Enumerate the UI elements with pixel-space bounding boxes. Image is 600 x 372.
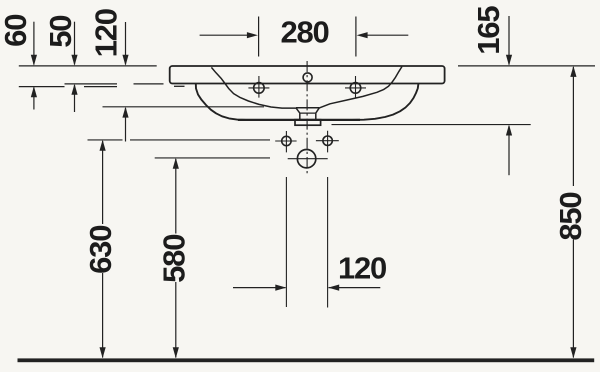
basin deck rectangle (170, 66, 445, 84)
arrowhead 60 down (31, 55, 37, 66)
dimension 165 lower tail (508, 126, 510, 175)
wire 50-level dash segment 1 (65, 83, 118, 85)
dimension 850 line lower part (572, 240, 574, 358)
tap hole centre circle (303, 73, 312, 82)
trap nut rectangle (295, 120, 321, 126)
dimension 50 lower tail (74, 85, 76, 112)
arrowhead 50 up (71, 84, 77, 95)
wire rim-top reference line right (458, 65, 595, 67)
dimension 120-bottom right line (329, 287, 381, 289)
fixation extension line right (to 120 dim) (327, 177, 329, 308)
drain funnel left side (299, 113, 301, 119)
fixation extension line left (to 120 dim) (285, 177, 287, 307)
drain funnel right side (315, 113, 317, 119)
centre line vertical (dash-dot) (306, 61, 308, 176)
arrowhead 120 down (122, 55, 128, 66)
tap hole right crosshair (345, 76, 366, 98)
dimension 120 upper tail (125, 22, 127, 65)
drain pipe circle (297, 150, 315, 168)
svg-text:850: 850 (553, 193, 588, 241)
bowl outer silhouette (196, 84, 419, 120)
wire 60-level dash segment 2 (84, 86, 117, 88)
arrowhead 630 up (100, 140, 106, 151)
dimension 850 line upper part (572, 67, 574, 186)
wire rim-top reference line left (19, 65, 157, 67)
arrowhead 60 up (31, 86, 37, 97)
arrowhead 50 down (71, 55, 77, 66)
svg-text:165: 165 (471, 6, 506, 55)
arrowhead 630 down (100, 347, 106, 358)
arrowhead 120 up (122, 107, 128, 118)
wire 120-level reference line (103, 106, 265, 108)
dimension 280 left tail (200, 34, 248, 36)
bowl inner silhouette left branch (211, 67, 296, 108)
wire fixation-level dash segment (88, 139, 123, 141)
svg-text:120: 120 (338, 251, 386, 286)
dimension 60 lower tail (33, 88, 35, 110)
drain funnel inner step (300, 112, 316, 114)
dimension 280 right extension line (355, 17, 357, 57)
dimension 630 line upper part (102, 141, 104, 224)
fixation hole left crosshair (275, 131, 296, 152)
arrowhead 120-bottom left-pointing (328, 285, 339, 291)
arrowhead 165 down (506, 55, 512, 66)
dimension 280 left extension line (258, 17, 260, 57)
svg-text:60: 60 (0, 15, 33, 47)
arrowhead 850 up (570, 66, 576, 77)
svg-text:50: 50 (43, 16, 78, 48)
fixation hole right circle (323, 136, 332, 145)
arrowhead 280 left-pointing (357, 32, 368, 38)
arrowhead 120-bottom right-pointing (275, 285, 286, 291)
tap hole left crosshair (248, 76, 269, 98)
dimension 165 upper tail (508, 16, 510, 65)
arrowhead 280 right-pointing (247, 32, 258, 38)
wire 60-level dash segment 3 (174, 85, 185, 87)
svg-text:630: 630 (83, 226, 118, 274)
drain funnel right slant (316, 108, 320, 113)
arrowhead 850 down (570, 347, 576, 358)
dimension 120 lower tail (125, 108, 127, 142)
drain pipe crosshair horizontal (288, 158, 328, 160)
tap hole left circle (254, 83, 265, 94)
fixation hole left circle (282, 136, 291, 145)
tap hole right circle (350, 83, 361, 94)
wire drain-level reference line (580) (155, 157, 270, 159)
bowl bottom thick line (238, 119, 360, 121)
dimension 630 line lower part (102, 273, 104, 358)
svg-text:580: 580 (157, 235, 192, 283)
wire 50-level dash segment 2 (134, 83, 164, 85)
wire trap-outlet-level reference line (165) (332, 124, 531, 126)
arrowhead 580 up (173, 158, 179, 169)
wire fixation-level long line (130, 139, 270, 141)
dimension 580 line lower part (175, 282, 177, 358)
dimension 50 upper tail (74, 22, 76, 65)
dimension 60 upper tail (33, 22, 35, 65)
drain funnel left slant (296, 108, 300, 113)
wire 60-level dash segment 1 (19, 86, 65, 88)
arrowhead 165 up (506, 125, 512, 136)
dimension 280 right tail (367, 34, 408, 36)
svg-text:120: 120 (88, 9, 123, 57)
fixation hole right crosshair (316, 131, 339, 153)
drain funnel top edge (296, 107, 319, 109)
svg-text:280: 280 (280, 15, 328, 50)
dimension 120-bottom left line (233, 287, 286, 289)
dimension 580 line upper part (175, 159, 177, 234)
bowl inner silhouette right branch (319, 67, 402, 108)
floor line (18, 358, 595, 362)
arrowhead 580 down (173, 347, 179, 358)
